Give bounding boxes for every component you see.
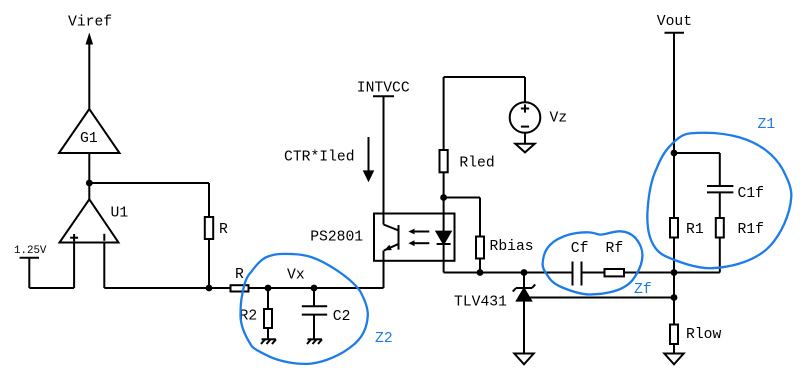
node Viref label (68, 14, 112, 30)
R2 label (240, 309, 258, 325)
resistor Rled body (440, 150, 448, 172)
resistor R series body (231, 285, 249, 291)
junction dot Rled bottom (440, 194, 447, 201)
G1 label (80, 131, 98, 147)
shunt regulator TLV431 (513, 273, 535, 354)
ground Rlow arrow (664, 354, 683, 365)
capacitor C2 (302, 288, 327, 339)
node Vx label (287, 268, 305, 284)
wire 1.25V to plus input (29, 287, 74, 289)
svg-text:INTVCC: INTVCC (357, 81, 410, 97)
wire Cf to Rf (582, 272, 605, 274)
wire U1 plus input stub (73, 243, 75, 289)
resistor Rlow wires (673, 273, 675, 354)
TLV431 label (454, 294, 507, 310)
resistor R feedback body (205, 217, 213, 239)
blue ellipse Z2 (241, 254, 368, 364)
ground R2 (261, 339, 276, 344)
junction dot C2 (311, 285, 318, 292)
svg-text:R1f: R1f (738, 222, 764, 238)
svg-text:Zf: Zf (634, 282, 652, 298)
resistor R2 body (264, 309, 272, 328)
LED diode of PS2801 (437, 198, 451, 273)
svg-text:Cf: Cf (571, 241, 589, 257)
svg-text:Rled: Rled (459, 156, 494, 172)
1.25V terminal T-bar (20, 258, 39, 288)
svg-text:Rbias: Rbias (490, 239, 534, 255)
phototransistor emitter (384, 244, 399, 251)
resistor R1f body (716, 218, 724, 238)
R feedback label (219, 222, 228, 238)
junction dot U1 output (86, 180, 93, 187)
optocoupler PS2801 box (374, 214, 455, 261)
svg-text:TLV431: TLV431 (454, 294, 507, 310)
R1 label (686, 222, 704, 238)
phototransistor collector (384, 225, 399, 231)
U1 minus input mark (103, 234, 105, 241)
phototransistor base bar (398, 225, 400, 250)
capacitor C1f (707, 186, 733, 218)
wire U1 minus input stub (103, 243, 105, 289)
junction dot TLV431 (521, 269, 528, 276)
junction dot divider top branch (671, 150, 678, 157)
wire bottom bus left (444, 272, 573, 274)
wire minus input to node (104, 287, 209, 289)
svg-text:Vz: Vz (550, 111, 568, 127)
Rf label (606, 241, 624, 257)
INTVCC terminal T-bar (373, 96, 394, 224)
capacitor Cf (573, 262, 582, 286)
R1f label (738, 222, 764, 238)
svg-text:R: R (235, 267, 244, 283)
node INTVCC label (357, 81, 410, 97)
svg-text:G1: G1 (80, 131, 98, 147)
blue ellipse Zf (543, 231, 643, 294)
svg-text:U1: U1 (111, 206, 129, 222)
light arrow upper (408, 229, 429, 235)
Viref arrow (86, 33, 94, 110)
junction dot Rbias bottom (477, 269, 484, 276)
svg-text:R1: R1 (686, 222, 704, 238)
wire to series R (209, 287, 231, 289)
svg-text:Rlow: Rlow (686, 327, 721, 343)
svg-text:1.25V: 1.25V (14, 245, 47, 257)
wire Rf to divider node (624, 272, 674, 274)
svg-text:Vx: Vx (287, 268, 305, 284)
Z2 label (375, 331, 393, 347)
resistor R feedback wires (208, 183, 210, 288)
svg-text:Viref: Viref (68, 14, 112, 30)
Zf label (634, 282, 652, 298)
resistor Rlow body (670, 325, 678, 345)
amplifier G1 (59, 109, 120, 153)
Vout terminal T-bar (665, 33, 685, 273)
resistor Rf body (605, 269, 625, 276)
resistor R2 wires (267, 288, 269, 339)
junction dot R2 (265, 285, 272, 292)
U1 plus input mark (70, 234, 78, 241)
C2 label (333, 309, 351, 325)
svg-text:CTR*Iled: CTR*Iled (284, 150, 355, 166)
Cf label (571, 241, 589, 257)
junction dot divider bottom (671, 269, 678, 276)
PS2801 label (310, 230, 363, 246)
Rbias label (490, 239, 534, 255)
op-amp U1 (60, 199, 119, 242)
wire Rled node to Rbias (444, 198, 480, 273)
svg-text:C2: C2 (333, 309, 351, 325)
junction dot reference wire (671, 294, 678, 301)
C1f label (738, 186, 764, 202)
Vz label (550, 111, 568, 127)
wire G1 output to node (88, 153, 90, 183)
Rlow label (686, 327, 721, 343)
source 1.25V label (14, 245, 47, 257)
blue ellipse Z1 (647, 133, 791, 268)
R series label (235, 267, 244, 283)
ground C2 (307, 339, 322, 344)
svg-text:C1f: C1f (738, 186, 764, 202)
current label CTR*Iled (284, 150, 355, 166)
current arrow (363, 137, 375, 182)
wire emitter to Vx bus (383, 250, 385, 288)
resistor R1 body (670, 218, 678, 238)
resistor Rled wires (443, 77, 445, 198)
source Vz (510, 77, 541, 144)
svg-text:R: R (219, 222, 228, 238)
ground TLV431 arrow (514, 354, 533, 365)
svg-text:Rf: Rf (606, 241, 624, 257)
wire node to U1 output apex (88, 183, 90, 199)
U1 label (111, 206, 129, 222)
wire top to Vz (444, 76, 525, 78)
wire Vx bus (250, 287, 384, 289)
ground Vz arrow (515, 144, 534, 153)
wire feedback node to R (89, 182, 209, 184)
svg-text:Z2: Z2 (375, 331, 393, 347)
wire branch to C1f (674, 153, 720, 186)
svg-text:Z1: Z1 (758, 117, 776, 133)
light arrow lower (408, 240, 429, 246)
node Vout label (657, 14, 692, 30)
svg-text:Vout: Vout (657, 14, 692, 30)
svg-text:PS2801: PS2801 (310, 230, 363, 246)
junction dot R bottom (206, 285, 213, 292)
wire R1f to bus (674, 238, 720, 273)
Rled label (459, 156, 494, 172)
wire TLV431 reference to divider node (528, 297, 674, 299)
resistor Rbias body (476, 237, 484, 259)
Z1 label (758, 117, 776, 133)
